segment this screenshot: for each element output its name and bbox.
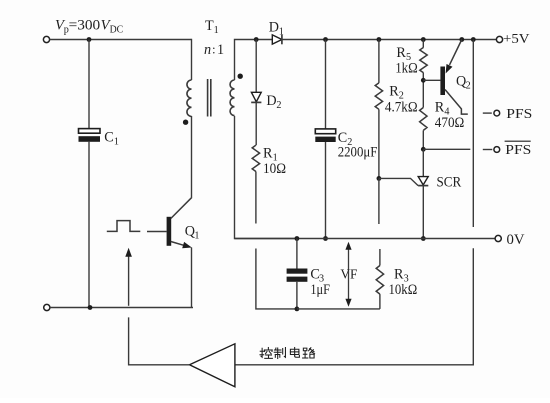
label R3 <box>394 267 409 285</box>
label D1 <box>269 20 284 38</box>
svg-text:470Ω: 470Ω <box>435 115 465 131</box>
node C3 bottom junction <box>295 307 300 312</box>
node R5-R4-base junction <box>421 78 426 83</box>
svg-text:=300: =300 <box>69 18 101 34</box>
transformer T1 secondary winding <box>230 80 234 116</box>
wire R5 bottom lead <box>422 73 424 108</box>
wire feedback bottom <box>297 308 380 310</box>
wire +5V rail segment B <box>282 39 497 41</box>
terminal +5V <box>496 36 502 42</box>
secondary phase dot <box>238 74 243 79</box>
label 0V <box>507 232 526 248</box>
wire C1 top lead <box>88 40 90 129</box>
node C2 on 0V rail <box>323 236 328 241</box>
resistor R4 <box>420 108 427 131</box>
node Q2 emitter branch <box>459 37 464 42</box>
transistor Q1 base bar <box>167 217 172 246</box>
wire triangle output <box>129 317 190 364</box>
node C2 branch <box>323 37 328 42</box>
wire PFS-bar from R4 node <box>423 148 470 150</box>
diode D1 <box>272 35 282 45</box>
label C3 <box>310 267 324 285</box>
capacitor C2 <box>315 129 335 142</box>
wire right rail upper (from +5V) <box>472 40 474 228</box>
label n:1 <box>204 42 224 59</box>
node R5 branch <box>421 37 426 42</box>
svg-text:SCR: SCR <box>437 175 462 191</box>
wire SCR anode lead <box>422 149 424 176</box>
wire C1 bottom lead <box>88 142 90 308</box>
wire C3 bottom lead <box>296 282 298 309</box>
label 1k ohm <box>395 61 418 77</box>
label C2 <box>338 130 353 148</box>
label D2 <box>266 93 281 111</box>
wire R4 bottom lead <box>422 130 424 149</box>
resistor R3 <box>376 266 383 295</box>
svg-text:D: D <box>266 93 276 109</box>
label R4 <box>435 100 450 118</box>
svg-text:2: 2 <box>276 100 281 111</box>
svg-text:10kΩ: 10kΩ <box>389 282 418 298</box>
wire primary bottom lead <box>191 116 193 197</box>
label R1 <box>263 146 278 164</box>
svg-text:2: 2 <box>466 80 471 91</box>
svg-text:PFS: PFS <box>505 142 531 157</box>
svg-text:1kΩ: 1kΩ <box>395 61 418 77</box>
wire D2 anode lead <box>255 40 257 93</box>
svg-text:4.7kΩ: 4.7kΩ <box>385 100 418 116</box>
node right rail branch <box>471 37 476 42</box>
wire bottom-left rail <box>50 307 193 309</box>
resistor R1 <box>252 145 259 171</box>
input terminal (top left) <box>43 36 49 42</box>
svg-text:R: R <box>389 84 399 100</box>
wire 0V rail <box>235 238 496 240</box>
node R2 branch <box>377 37 382 42</box>
resistor R2 <box>375 83 382 109</box>
svg-text:R: R <box>263 146 273 162</box>
label 2200uF <box>338 145 378 161</box>
label 4.7k ohm <box>385 100 418 116</box>
svg-text:2200μF: 2200μF <box>338 145 378 161</box>
wire Q2 base lead <box>423 79 440 81</box>
svg-text:1μF: 1μF <box>310 282 330 298</box>
label T1 <box>205 18 219 36</box>
wire secondary bottom lead <box>235 116 297 239</box>
svg-text:R: R <box>394 267 404 283</box>
wire Q1 base lead <box>147 231 167 233</box>
wire gate node down (crosses 0V rail) <box>378 178 380 224</box>
label 1uF <box>310 282 330 298</box>
wire C3 top lead <box>296 239 298 269</box>
PFS-bar output marker <box>483 147 500 153</box>
wire R3 bottom lead <box>379 294 381 309</box>
wire primary top lead <box>191 39 193 80</box>
node SCR gate junction <box>377 176 382 181</box>
wire R2 bottom lead <box>378 109 380 178</box>
svg-text:10Ω: 10Ω <box>263 161 286 177</box>
label control circuit (kong zhi dian lu) <box>260 348 315 359</box>
VF measurement arrow <box>345 242 351 307</box>
pulse waveform symbol <box>107 221 141 232</box>
svg-text::: : <box>212 42 216 57</box>
label +5V <box>503 31 530 46</box>
Q2 collector <box>445 90 468 115</box>
Q1 emitter with arrow <box>171 242 192 249</box>
svg-text:R: R <box>435 100 445 116</box>
wire C2 bottom lead <box>325 142 327 239</box>
transformer T1 primary winding <box>187 80 192 116</box>
Q1 collector <box>171 197 192 218</box>
svg-text:1: 1 <box>214 25 219 36</box>
Q2 emitter with arrow (PNP, to +5V) <box>446 40 462 74</box>
wire D2 cathode lead <box>255 102 257 145</box>
label PFS-bar <box>505 141 532 157</box>
control amplifier triangle <box>190 344 235 387</box>
wire SCR cathode lead <box>422 186 424 239</box>
node R4-SCR-PFS junction <box>421 147 426 152</box>
svg-text:PFS: PFS <box>506 106 532 121</box>
wire +5V rail segment A <box>256 39 272 41</box>
label Q2 <box>456 74 471 92</box>
input terminal (bottom left) <box>44 304 50 310</box>
label Q1 <box>185 224 200 242</box>
diode D2 <box>251 92 261 102</box>
wire R1 bottom lead (crosses 0V rail) <box>255 172 257 224</box>
svg-text:D: D <box>269 20 279 36</box>
wire to R3 <box>379 249 381 266</box>
primary phase dot <box>183 120 188 125</box>
svg-text:R: R <box>396 45 406 61</box>
label C1 <box>104 130 119 148</box>
node C3 top on 0V rail <box>295 236 300 241</box>
wire R2 top lead <box>378 40 380 83</box>
SCR gate lead <box>379 178 418 185</box>
label R5 <box>396 45 411 63</box>
label R2 <box>389 84 404 102</box>
SCR thyristor <box>418 177 428 186</box>
label PFS <box>506 106 532 121</box>
svg-text:1: 1 <box>194 230 199 241</box>
svg-text:VF: VF <box>340 267 357 282</box>
label 10k ohm <box>389 282 418 298</box>
capacitor C3 <box>287 269 308 282</box>
svg-text:1: 1 <box>279 26 284 37</box>
resistor R5 <box>420 47 427 72</box>
wire R1 to feedback node <box>256 249 297 309</box>
svg-text:+5V: +5V <box>503 31 530 46</box>
svg-text:1: 1 <box>114 136 119 147</box>
wire Q1 emitter lead <box>191 248 193 308</box>
wire secondary top lead <box>235 40 257 81</box>
wire right rail lower <box>235 248 473 364</box>
label SCR <box>437 175 462 191</box>
drive arrow into Q1 <box>125 248 132 306</box>
label 470 ohm <box>435 115 465 131</box>
PFS output marker <box>483 110 500 116</box>
node D2 branch <box>254 37 259 42</box>
label Vp=300VDC <box>55 18 123 36</box>
svg-text:1: 1 <box>217 42 224 58</box>
node C1 bottom junction <box>88 305 93 310</box>
transistor Q2 base bar <box>440 67 445 96</box>
svg-text:C: C <box>104 130 113 146</box>
label VF <box>340 267 357 282</box>
terminal 0V <box>495 235 501 241</box>
node SCR on 0V rail <box>421 236 426 241</box>
wire C2 top lead <box>325 40 327 129</box>
svg-text:n: n <box>204 42 211 58</box>
node C1 top junction <box>87 37 92 42</box>
svg-text:0V: 0V <box>507 232 526 248</box>
capacitor C1 <box>79 129 101 142</box>
wire top-left rail <box>50 39 192 41</box>
svg-text:DC: DC <box>110 25 124 36</box>
wire R5 top lead <box>422 40 424 48</box>
transformer core <box>208 79 211 117</box>
label 10 ohm <box>263 161 286 177</box>
